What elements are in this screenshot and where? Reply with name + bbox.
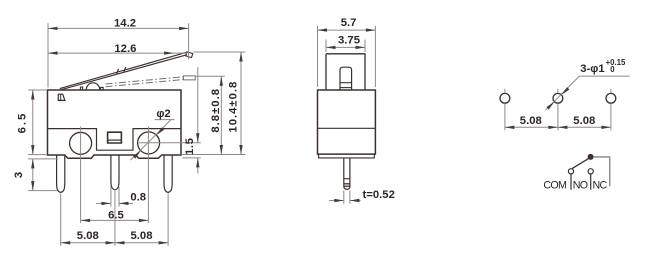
- svg-text:3.75: 3.75: [338, 34, 360, 46]
- front view: pin tick mark 3: [344, 185, 350, 187]
- svg-text:1.5: 1.5: [184, 137, 196, 155]
- left view: lever dashed position lower line: [106, 80, 184, 87]
- front view: plunger: [340, 67, 352, 90]
- front view: plunger lines: [340, 82, 352, 84]
- left view: terminal pin 2: [111, 155, 119, 190]
- svg-text:5.7: 5.7: [341, 17, 357, 29]
- left view: plunger dome: [86, 83, 99, 90]
- front view: pin tick marks: [344, 178, 350, 180]
- dim 8.8 top extension line from dashed tip: [196, 75, 225, 77]
- hole layout: extension line below hole 3: [610, 104, 612, 131]
- hole centre line left: [80, 127, 82, 223]
- dia 2 leader underline: [155, 119, 175, 121]
- dim 10.4 top extension line from lever tip: [194, 51, 246, 53]
- svg-text:5.08: 5.08: [131, 230, 153, 242]
- dim t extension lines: [343, 191, 345, 204]
- dim 3.75 extension lines: [325, 40, 327, 53]
- svg-text:COM: COM: [543, 180, 567, 192]
- pin centre line 3: [167, 194, 169, 246]
- front view: bottom strip: [319, 154, 375, 158]
- svg-text:5.08: 5.08: [77, 230, 99, 242]
- dim 1.5 extension line from foot bottom: [183, 157, 201, 159]
- leader 3-dia1 line: [545, 76, 579, 110]
- dim 3.75 dimension line: [326, 46, 365, 48]
- dim 3 pin length dimension line: [32, 159, 34, 191]
- svg-text:NC: NC: [593, 180, 608, 192]
- svg-text:+0.15: +0.15: [606, 58, 626, 67]
- hole layout: pin hole 1: [500, 93, 510, 103]
- left view: lever tick mark 2: [124, 67, 126, 72]
- dim 5.7 dimension line: [318, 29, 376, 31]
- dim 1.5 extension line from hole centre: [139, 142, 201, 144]
- dim 12.6 dimension line: [48, 52, 187, 54]
- svg-text:5.08: 5.08: [520, 115, 542, 127]
- front view: base seam line: [318, 127, 376, 129]
- left view: base seam line with centre recess: [48, 129, 182, 151]
- bottom extension line from body corner: [183, 154, 246, 156]
- front view: body outline: [318, 90, 376, 154]
- dim 3 lower extension line at pin tip: [28, 190, 57, 192]
- front view: terminal pin: [344, 158, 350, 190]
- svg-text:t=0.52: t=0.52: [363, 189, 395, 201]
- schematic: COM lead: [570, 174, 572, 190]
- svg-text:3-φ1: 3-φ1: [580, 63, 604, 75]
- hole centre line right: [147, 127, 149, 223]
- svg-text:8.8±0.8: 8.8±0.8: [210, 88, 222, 133]
- dim 3 extension line: [28, 158, 58, 160]
- schematic: COM contact circle: [568, 169, 573, 174]
- svg-text:0: 0: [610, 65, 615, 74]
- svg-text:φ2: φ2: [156, 108, 170, 120]
- svg-text:6.5: 6.5: [108, 209, 124, 221]
- svg-text:5.08: 5.08: [573, 115, 595, 127]
- left view: dashed position tip: [184, 76, 196, 80]
- dim 1.5 dimension line lower tail: [197, 158, 199, 174]
- hole layout: centre tick above hole 3: [610, 89, 612, 93]
- svg-text:NO: NO: [573, 180, 588, 192]
- hole layout: extension line below hole 2: [557, 104, 559, 131]
- dim t dimension line: [329, 200, 344, 202]
- left view: terminal pin 1: [57, 155, 65, 193]
- dim 14.2 right extension line: [188, 23, 190, 59]
- svg-text:0.8: 0.8: [130, 192, 146, 204]
- left view: mounting hole left: [70, 132, 92, 154]
- dim 1.5 dimension line upper tail: [197, 67, 199, 143]
- left view: lever bent tip: [186, 52, 193, 58]
- svg-text:10.4±0.8: 10.4±0.8: [227, 81, 239, 133]
- hole layout: extension line below hole 1: [504, 104, 506, 131]
- dim 0.8 extension lines at pin edges: [110, 187, 112, 207]
- left view: centre slot inner line: [108, 139, 122, 141]
- left view: terminal pin 3: [164, 155, 172, 193]
- dim 6.5 hole spacing dimension line: [81, 219, 149, 221]
- pin centre line 2: [114, 191, 116, 246]
- hole layout: pin hole 2: [553, 93, 563, 103]
- left view: centre slot rectangle: [108, 132, 122, 143]
- dim 14.2 left extension line: [47, 23, 49, 87]
- schematic: NO lead: [590, 174, 592, 190]
- schematic: NC wire: [593, 157, 610, 186]
- hole layout: pin hole 3: [606, 93, 616, 103]
- left view: switch body outline: [48, 90, 182, 158]
- pin centre line 1: [60, 194, 62, 246]
- left view: lever dashed position upper line: [106, 77, 184, 84]
- dim 0.8 dimension line: [96, 202, 111, 204]
- left view: lever top line: [60, 52, 187, 88]
- left view: moulding mark below top edge: [58, 94, 65, 100]
- dia 2 leader line: [131, 120, 172, 161]
- dim 8.8 dimension line: [220, 76, 222, 154]
- svg-text:12.6: 12.6: [114, 43, 136, 55]
- dim 6.5 height dimension line: [32, 90, 34, 155]
- schematic: moving arm from COM to NC dot: [572, 159, 588, 169]
- dim 5.08 pin pitch dimension line: [61, 242, 168, 244]
- left view: small boss right of dome: [101, 87, 104, 89]
- front view: lever front block: [326, 54, 365, 90]
- left view: mounting hole right: [138, 132, 160, 154]
- svg-text:14.2: 14.2: [114, 17, 136, 29]
- schematic: NO contact circle: [588, 169, 593, 174]
- dim 6.5 height extension lines: [28, 89, 46, 91]
- svg-text:3: 3: [13, 172, 25, 178]
- schematic: NC contact dot: [588, 154, 593, 159]
- hole layout: centre tick above hole 1: [504, 89, 506, 93]
- left view: lever tick mark 1: [117, 69, 119, 74]
- dim 14.2 dimension line: [48, 27, 189, 29]
- hole layout: centre tick above hole 2: [557, 89, 559, 93]
- dim 5.7 extension lines: [317, 26, 319, 87]
- dim 10.4 dimension line: [240, 52, 242, 155]
- dim 5.08 hole pitch dimension line: [505, 126, 611, 128]
- left view: small boss left of dome: [80, 87, 82, 90]
- svg-text:6.5: 6.5: [17, 112, 29, 134]
- left view: lever bottom line: [60, 55, 187, 90]
